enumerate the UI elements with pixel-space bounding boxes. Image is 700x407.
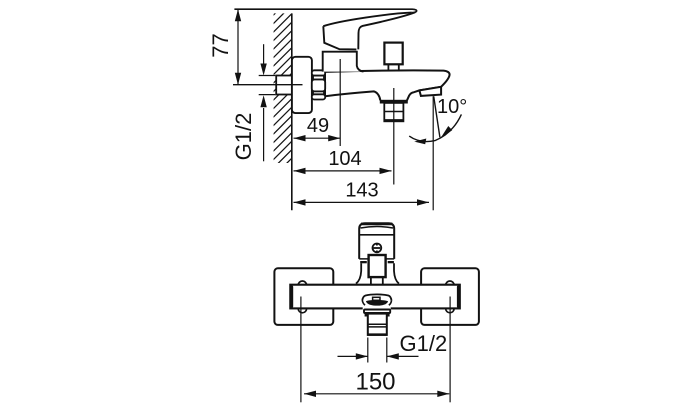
spout dark crescent [366,300,388,306]
150 dim extension lines [300,297,302,403]
10 degree arc [409,114,461,141]
svg-text:150: 150 [355,369,395,396]
handle top thick bar [361,223,392,226]
left wall plate [274,268,333,325]
mounting circle right bottom [446,304,454,312]
svg-text:77: 77 [208,33,233,57]
svg-text:143: 143 [345,180,378,202]
svg-text:104: 104 [328,148,361,170]
bar left end cap [290,287,293,306]
handle bottom line [359,258,394,260]
pipe diameter dim [259,75,276,77]
svg-text:10°: 10° [437,96,467,118]
mounting nut [312,70,325,99]
mounting circle left bottom [298,304,306,312]
wall face line [291,13,293,210]
dim 77 vertical line [237,9,239,85]
shower outlet tube [384,103,403,121]
lever bottom edge [358,12,415,49]
cartridge centerline [339,59,341,146]
svg-text:49: 49 [307,115,329,137]
diverter knob front [369,255,386,277]
wall hatch [258,0,298,209]
body bar front view [290,285,460,309]
lever left edge and cap bottom [323,26,356,49]
body underside left [325,91,380,100]
shower outlet centerline [393,88,395,185]
dim 49 [294,137,341,139]
tube nut corners [365,314,370,317]
cartridge housing [323,52,364,72]
escutcheon plate [292,57,312,113]
spout cup bottom curls [362,301,365,306]
knob stem lines [370,277,372,285]
neck below handle [356,263,361,283]
arc arrowhead left [414,139,426,145]
spout inner rect [373,297,380,300]
shower tube front [368,314,387,335]
lever top surface edge [323,13,412,27]
spout outlet centerline [432,96,434,210]
body left edge [324,72,326,96]
bar right end cap [457,287,460,306]
spout aerator band [419,87,441,96]
connection pipe [276,76,292,95]
lever handle top line [234,9,416,12]
handle front view [359,223,394,259]
screw symbol [373,244,382,253]
mounting circle left top [298,281,306,289]
arc arrowhead right [441,126,452,138]
faucet body side view [325,70,449,100]
diverter knob [384,43,402,65]
handle cap inner arc [361,227,394,229]
handle bottom tabs [360,261,367,263]
10 degree slant line [434,96,440,137]
mounting circle right top [446,281,454,289]
pipe centerline [233,84,303,86]
spout front view cup [362,294,391,300]
dim 104 [294,170,392,172]
svg-text:G1/2: G1/2 [400,331,448,356]
handle band line [359,234,394,236]
knob stem [388,64,398,71]
150 dim line [304,393,449,395]
shower outlet flange [380,100,407,103]
right wall plate [421,268,479,325]
svg-text:G1/2: G1/2 [231,113,256,161]
G1/2 dim arrows [338,355,368,357]
dim 143 [294,201,430,203]
mask bar bottom line behind spout [363,307,391,310]
G1/2 dim extension lines [367,338,369,363]
spout collar [364,310,390,314]
